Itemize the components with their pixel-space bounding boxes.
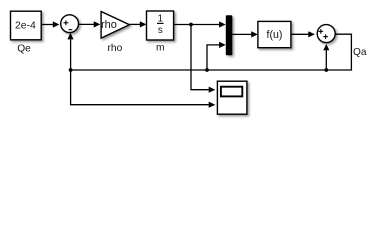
sum block S2 [317, 25, 335, 43]
Fcn block f(u) [258, 21, 291, 47]
svg-text:2e-4: 2e-4 [15, 21, 36, 32]
svg-text:f(u): f(u) [267, 29, 283, 41]
arrowhead into mux input 1 [219, 21, 226, 27]
wire integrator to mux input 1 [174, 24, 221, 26]
arrowhead into gain [94, 21, 101, 27]
plus sign (left input) [64, 22, 69, 24]
junction node feedback left end [69, 68, 73, 72]
svg-text:rho: rho [108, 43, 123, 54]
junction node feedback to sum S2 bottom [324, 68, 328, 72]
junction node on m wire [189, 23, 193, 27]
wire feedback up into sum S2 bottom input [325, 50, 327, 71]
wire feedback up and right into mux input 2 [207, 45, 221, 70]
arrowhead into sum S2 [308, 31, 315, 37]
wire feedback up into sum S1 bottom input [70, 38, 72, 71]
wire constant to sum S1 [41, 24, 54, 26]
wire gain to integrator [129, 23, 141, 25]
sum block S1 [61, 15, 79, 33]
svg-text:rho: rho [101, 19, 117, 31]
scope screen [221, 87, 242, 97]
wire m branch down to scope input 1 [191, 25, 211, 90]
constant block Qe value 2e-4 [11, 11, 42, 40]
svg-text:m: m [156, 43, 165, 54]
arrowhead into f(u) [251, 31, 258, 37]
arrowhead up into sum S2 bottom [323, 44, 329, 50]
arrowhead up into sum S1 bottom [67, 33, 73, 40]
arrowhead into integrator [140, 21, 147, 27]
svg-text:Qa: Qa [353, 47, 367, 58]
arrowhead into mux input 2 [219, 42, 226, 48]
plus sign (bottom input) [323, 36, 328, 38]
minus sign (bottom input) [69, 29, 73, 31]
arrowhead into scope input 2 [209, 102, 216, 108]
arrowhead into sum S1 [53, 21, 60, 27]
svg-text:Qe: Qe [17, 43, 31, 54]
wire sum S1 to gain rho [79, 23, 95, 25]
svg-text:s: s [158, 25, 163, 36]
scope block [217, 81, 247, 114]
wire Qa: sum S2 output right then down then left feedback bus [71, 34, 352, 70]
wire f(u) to sum S2 [291, 33, 309, 35]
plus sign (left input) [319, 30, 324, 32]
arrowhead into scope input 1 [209, 87, 216, 93]
integrator block 1/s [147, 11, 174, 40]
junction node feedback to mux input 2 [205, 68, 209, 72]
wire feedback down and right into scope input 2 [71, 70, 211, 105]
mux block (black bar) [226, 15, 233, 55]
wire mux to f(u) [232, 33, 253, 35]
gain block rho (triangle) [101, 12, 129, 39]
